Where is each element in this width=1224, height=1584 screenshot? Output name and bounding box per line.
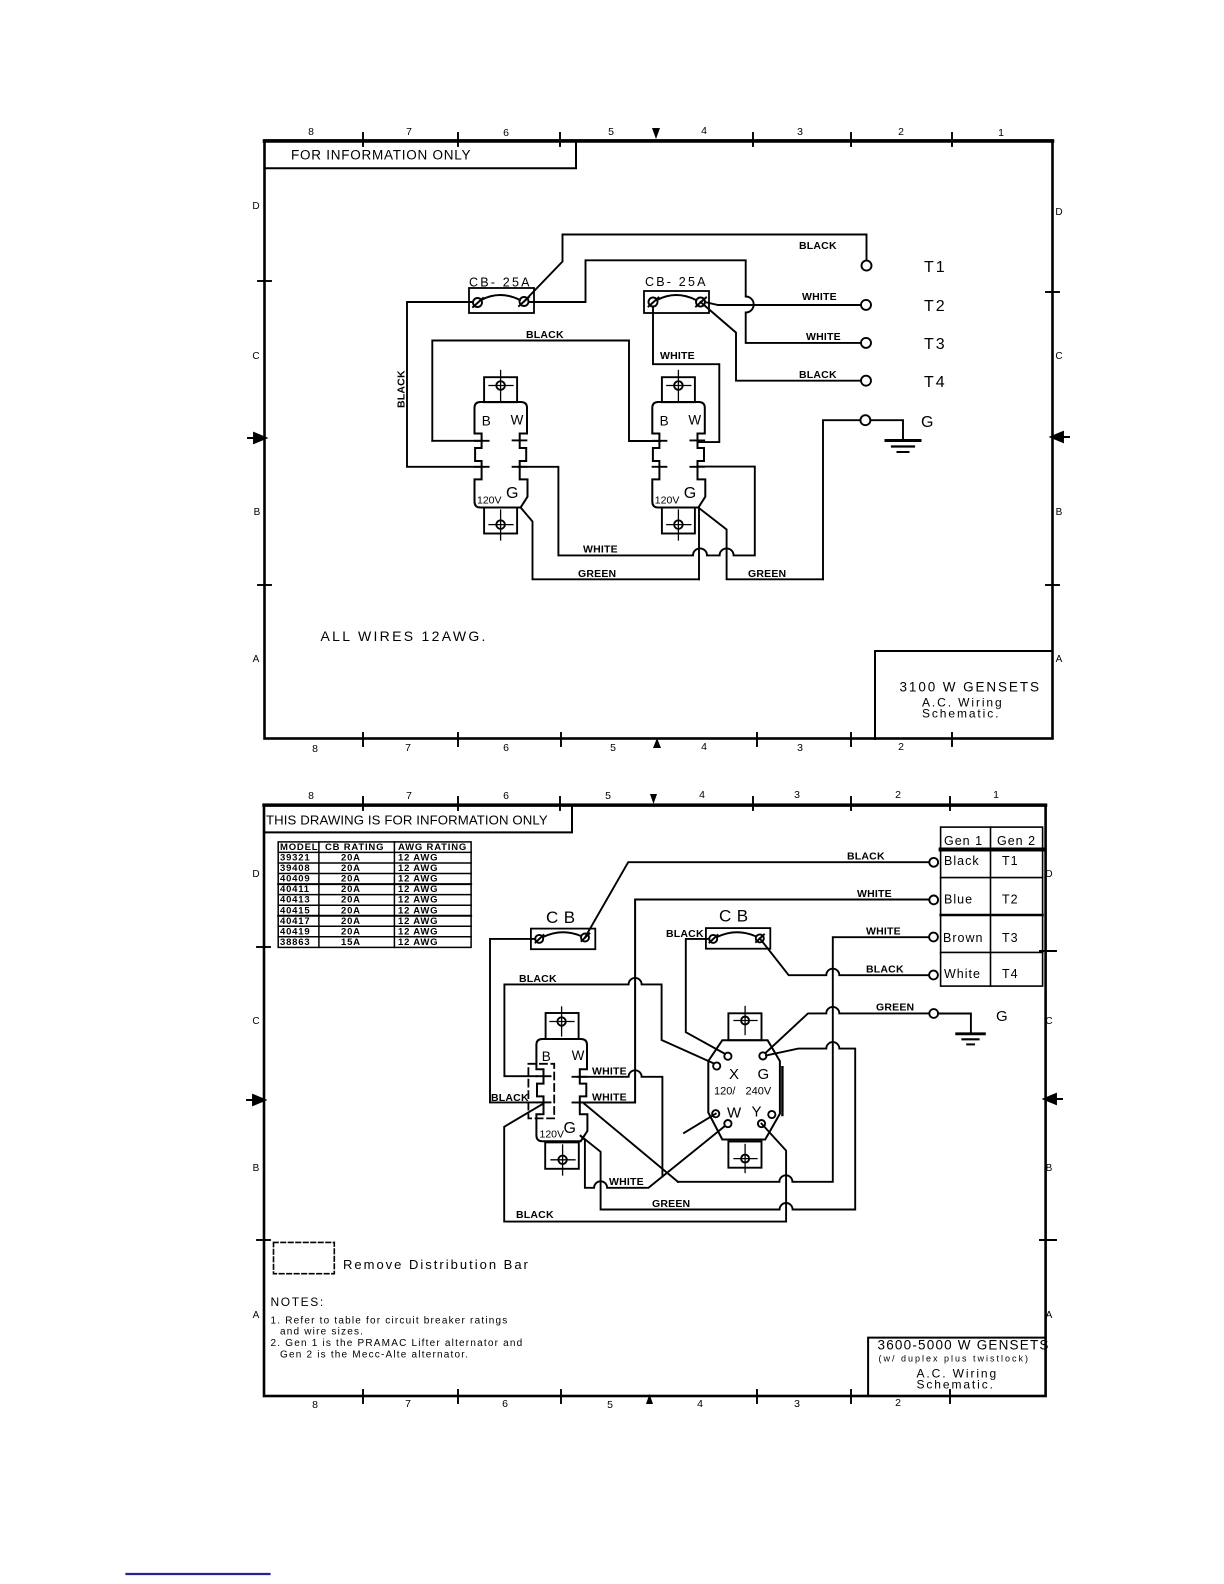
svg-text:5: 5 <box>607 1399 613 1411</box>
wire WHITE to T2 <box>705 302 861 305</box>
wire BLACK between receptacles <box>432 341 660 442</box>
svg-text:B: B <box>1046 1163 1053 1174</box>
svg-text:T1: T1 <box>924 259 947 276</box>
ground symbol <box>886 441 920 453</box>
svg-text:B: B <box>542 1049 551 1064</box>
svg-text:GREEN: GREEN <box>578 568 616 580</box>
svg-text:12 AWG: 12 AWG <box>398 926 438 937</box>
svg-text:WHITE: WHITE <box>609 1176 644 1188</box>
svg-text:4: 4 <box>697 1398 703 1410</box>
wire BLACK to T1 <box>524 235 867 302</box>
THIS DRAWING IS FOR INFORMATION ONLY box <box>264 805 572 832</box>
terminal T3 <box>861 338 871 348</box>
svg-text:W: W <box>511 413 524 428</box>
svg-text:X: X <box>729 1066 739 1083</box>
svg-text:6: 6 <box>502 1398 508 1410</box>
svg-text:W: W <box>727 1105 742 1122</box>
svg-text:7: 7 <box>406 790 412 802</box>
svg-text:ALL WIRES 12AWG.: ALL WIRES 12AWG. <box>321 628 488 644</box>
svg-text:BLACK: BLACK <box>491 1092 529 1104</box>
wire G chamfer to W pins <box>581 1114 725 1188</box>
svg-text:AWG RATING: AWG RATING <box>398 842 467 853</box>
zone labels frame 1 <box>248 201 1069 665</box>
ground symbol (bottom) <box>957 1034 985 1045</box>
svg-text:BLACK: BLACK <box>519 973 557 985</box>
wire WHITE bottom between receptacles <box>519 467 755 556</box>
svg-text:GREEN: GREEN <box>876 1002 914 1014</box>
svg-text:Remove Distribution Bar: Remove Distribution Bar <box>343 1257 530 1272</box>
svg-text:WHITE: WHITE <box>583 544 618 556</box>
svg-text:3600-5000 W GENSETS: 3600-5000 W GENSETS <box>878 1338 1050 1353</box>
wire GREEN bottom loop <box>581 1042 856 1209</box>
wire CB1 left down left side <box>407 302 482 467</box>
svg-text:20A: 20A <box>341 884 361 895</box>
wire BLACK to T1 (bottom) <box>585 862 929 937</box>
svg-text:T3: T3 <box>1002 931 1019 945</box>
wire Y pin to bottom BLACK <box>504 1104 786 1222</box>
notes <box>271 1295 524 1361</box>
svg-text:20A: 20A <box>341 895 361 906</box>
svg-text:8: 8 <box>308 790 314 802</box>
svg-text:A: A <box>1056 654 1063 665</box>
svg-text:WHITE: WHITE <box>866 926 901 938</box>
svg-text:BLACK: BLACK <box>847 851 885 863</box>
svg-text:Schematic.: Schematic. <box>917 1378 995 1392</box>
svg-text:6: 6 <box>503 127 509 139</box>
svg-text:40415: 40415 <box>280 905 310 916</box>
terminal T1 <box>862 261 872 271</box>
svg-text:6: 6 <box>503 790 509 802</box>
svg-text:WHITE: WHITE <box>806 331 841 343</box>
svg-text:CB- 25A: CB- 25A <box>469 276 532 290</box>
svg-text:A: A <box>253 654 260 665</box>
svg-text:3: 3 <box>797 742 803 754</box>
svg-text:B: B <box>253 1163 260 1174</box>
duplex receptacle J2 (right, 120V) <box>652 371 705 541</box>
svg-text:T4: T4 <box>924 374 947 391</box>
svg-text:3: 3 <box>797 126 803 138</box>
svg-text:20A: 20A <box>341 905 361 916</box>
svg-text:40419: 40419 <box>280 926 310 937</box>
circuit breaker CB (right, bottom drawing) <box>666 907 770 949</box>
svg-text:D: D <box>1055 207 1062 218</box>
terminal T2 <box>861 300 871 310</box>
svg-text:G: G <box>564 1120 576 1137</box>
svg-text:T4: T4 <box>1002 967 1019 981</box>
wire BLACK to T4 (bottom) <box>760 938 929 975</box>
svg-text:8: 8 <box>312 1399 318 1411</box>
svg-text:Blue: Blue <box>944 893 973 907</box>
terminal GREEN (bottom) <box>929 1009 938 1018</box>
wire GREEN right <box>699 508 823 579</box>
ruler numbers bottom of frame 1 <box>312 733 952 755</box>
svg-text:BLACK: BLACK <box>526 329 564 341</box>
svg-text:Schematic.: Schematic. <box>922 707 1000 721</box>
svg-text:40417: 40417 <box>280 916 310 927</box>
svg-text:8: 8 <box>308 126 314 138</box>
svg-text:CB- 25A: CB- 25A <box>645 275 708 289</box>
svg-text:8: 8 <box>312 743 318 755</box>
svg-text:7: 7 <box>405 742 411 754</box>
wire B upper to BLACK to X pin <box>504 978 714 1076</box>
wire GREEN to G terminal (bottom) <box>766 1007 929 1053</box>
svg-text:WHITE: WHITE <box>857 888 892 900</box>
svg-text:T2: T2 <box>1002 893 1019 907</box>
svg-text:2: 2 <box>895 1397 901 1409</box>
svg-text:1: 1 <box>998 127 1004 139</box>
wire right receptacle G down <box>698 508 700 579</box>
svg-text:B: B <box>1056 507 1063 518</box>
svg-text:40413: 40413 <box>280 895 310 906</box>
svg-text:W: W <box>688 413 701 428</box>
svg-text:D: D <box>252 869 259 880</box>
svg-text:BLACK: BLACK <box>799 240 837 252</box>
svg-text:FOR INFORMATION ONLY: FOR INFORMATION ONLY <box>291 148 471 163</box>
Gen1/Gen2 table <box>941 827 1043 986</box>
svg-text:Black: Black <box>944 854 980 868</box>
svg-text:4: 4 <box>701 125 707 137</box>
zone labels frame 2 <box>247 869 1062 1321</box>
svg-text:G: G <box>758 1066 770 1083</box>
duplex receptacle (bottom drawing, 120V) <box>536 1007 587 1175</box>
svg-text:40409: 40409 <box>280 874 310 885</box>
svg-text:20A: 20A <box>341 863 361 874</box>
svg-text:12 AWG: 12 AWG <box>398 863 438 874</box>
svg-text:C: C <box>1045 1016 1052 1027</box>
svg-text:D: D <box>252 201 259 212</box>
wire W slot diagonal to T3 run <box>584 1104 678 1182</box>
svg-text:G: G <box>996 1008 1010 1025</box>
svg-text:120V: 120V <box>477 495 502 507</box>
sheet frame 2 <box>264 805 1046 1396</box>
svg-text:20A: 20A <box>341 874 361 885</box>
svg-text:15A: 15A <box>341 937 361 948</box>
svg-text:WHITE: WHITE <box>592 1066 627 1078</box>
svg-text:Gen 1: Gen 1 <box>944 834 983 848</box>
svg-text:2. Gen 1 is the PRAMAC Lifter: 2. Gen 1 is the PRAMAC Lifter alternator… <box>271 1338 524 1349</box>
svg-text:120/: 120/ <box>714 1086 736 1098</box>
svg-text:120V: 120V <box>655 495 680 507</box>
wire CB1 right to T3 <box>529 260 862 343</box>
duplex receptacle J1 (left, 120V) <box>475 371 528 541</box>
svg-text:T3: T3 <box>924 336 947 353</box>
svg-text:D: D <box>1045 869 1052 880</box>
wire BLACK to T4 <box>701 302 862 381</box>
svg-text:GREEN: GREEN <box>748 568 786 580</box>
svg-text:12 AWG: 12 AWG <box>398 853 438 864</box>
svg-text:CB: CB <box>719 907 754 926</box>
svg-text:5: 5 <box>608 126 614 138</box>
svg-text:Brown: Brown <box>943 931 983 945</box>
svg-text:3: 3 <box>794 789 800 801</box>
wire left receptacle B upper <box>432 440 482 442</box>
svg-text:WHITE: WHITE <box>660 350 695 362</box>
title block drawing 2 <box>868 1338 1050 1397</box>
svg-text:NOTES:: NOTES: <box>271 1295 325 1309</box>
svg-text:38863: 38863 <box>280 937 310 948</box>
twistlock receptacle (120/240V) <box>708 1007 782 1173</box>
circuit breaker CB2 (CB- 25A) <box>644 275 709 313</box>
svg-text:12 AWG: 12 AWG <box>398 937 438 948</box>
wire WHITE to T3 (bottom) <box>678 937 929 1182</box>
wire CB2-left to X pin <box>686 939 725 1054</box>
svg-text:20A: 20A <box>341 916 361 927</box>
svg-text:39408: 39408 <box>280 863 310 874</box>
svg-text:GREEN: GREEN <box>652 1198 690 1210</box>
svg-text:12 AWG: 12 AWG <box>398 905 438 916</box>
dashed distribution bar box <box>528 1064 554 1119</box>
svg-text:20A: 20A <box>341 853 361 864</box>
circuit breaker CB1 (CB- 25A) <box>469 276 534 314</box>
svg-text:7: 7 <box>405 1398 411 1410</box>
svg-text:MODEL: MODEL <box>280 842 318 853</box>
svg-text:C: C <box>252 351 259 362</box>
svg-text:5: 5 <box>610 742 616 754</box>
svg-text:B: B <box>660 414 669 429</box>
svg-text:T2: T2 <box>924 298 947 315</box>
svg-text:2: 2 <box>895 789 901 801</box>
svg-text:G: G <box>684 485 696 502</box>
svg-text:BLACK: BLACK <box>866 964 904 976</box>
svg-text:C: C <box>1055 351 1062 362</box>
svg-text:240V: 240V <box>746 1086 772 1098</box>
svg-text:12 AWG: 12 AWG <box>398 874 438 885</box>
title block drawing 1 <box>875 651 1053 739</box>
ruler numbers top of frame 1 <box>308 125 1004 146</box>
svg-text:12 AWG: 12 AWG <box>398 884 438 895</box>
svg-text:2: 2 <box>898 126 904 138</box>
terminal G <box>860 415 870 425</box>
page footer blue rule <box>127 1573 270 1575</box>
wire CB2 left to right receptacle W upper <box>653 307 719 443</box>
wire CB left to B lower slot <box>490 939 537 1103</box>
svg-text:W: W <box>572 1048 585 1063</box>
svg-text:7: 7 <box>406 126 412 138</box>
svg-text:T1: T1 <box>1002 854 1019 868</box>
FOR INFORMATION ONLY title box <box>265 141 577 168</box>
svg-text:A: A <box>1046 1310 1053 1321</box>
svg-text:C: C <box>252 1016 259 1027</box>
svg-text:Y: Y <box>752 1104 762 1121</box>
svg-text:B: B <box>254 507 261 518</box>
terminal T4 <box>861 376 871 386</box>
terminal T4 (bottom) <box>929 971 938 980</box>
svg-text:5: 5 <box>605 790 611 802</box>
svg-text:B: B <box>482 414 491 429</box>
ruler numbers top of frame 2 <box>308 789 999 810</box>
svg-text:CB: CB <box>546 908 581 927</box>
svg-text:2: 2 <box>898 741 904 753</box>
svg-text:12 AWG: 12 AWG <box>398 895 438 906</box>
svg-text:WHITE: WHITE <box>592 1092 627 1104</box>
svg-text:THIS DRAWING IS FOR INFORMATIO: THIS DRAWING IS FOR INFORMATION ONLY <box>266 813 548 828</box>
svg-text:3: 3 <box>794 1398 800 1410</box>
svg-text:G: G <box>506 485 518 502</box>
terminal T1 (bottom) <box>929 858 938 867</box>
svg-text:WHITE: WHITE <box>802 291 837 303</box>
svg-text:BLACK: BLACK <box>396 370 408 408</box>
sheet frame 1 <box>265 141 1053 739</box>
Remove Distribution Bar legend <box>274 1242 530 1273</box>
wire GREEN left <box>521 508 699 580</box>
svg-text:A: A <box>253 1310 260 1321</box>
svg-text:40411: 40411 <box>280 884 310 895</box>
wire to ground (bottom) <box>938 1014 971 1033</box>
circuit breaker CB (left, bottom drawing) <box>531 908 595 949</box>
wire W upper over to W pin riser <box>578 1070 662 1176</box>
wire WHITE to T2 (bottom) <box>578 900 929 1103</box>
terminal T2 (bottom) <box>929 896 938 905</box>
svg-text:BLACK: BLACK <box>516 1209 554 1221</box>
svg-text:1. Refer to table for circuit: 1. Refer to table for circuit breaker ra… <box>271 1316 509 1327</box>
wire G to ground <box>870 420 903 439</box>
svg-text:120V: 120V <box>540 1129 565 1141</box>
svg-text:BLACK: BLACK <box>799 369 837 381</box>
svg-text:39321: 39321 <box>280 853 310 864</box>
terminal T3 (bottom) <box>929 933 938 942</box>
svg-text:Gen 2: Gen 2 <box>997 834 1036 848</box>
svg-text:4: 4 <box>701 741 707 753</box>
wire G terminal to GREEN riser <box>823 420 860 579</box>
breaker rating table <box>278 842 471 948</box>
svg-text:Gen 2 is the Mecc-Alte alterna: Gen 2 is the Mecc-Alte alternator. <box>280 1350 469 1361</box>
svg-text:and wire sizes.: and wire sizes. <box>280 1327 364 1338</box>
svg-text:CB RATING: CB RATING <box>325 842 384 853</box>
svg-text:1: 1 <box>993 789 999 801</box>
svg-text:4: 4 <box>699 789 705 801</box>
ruler numbers bottom of frame 2 <box>312 1390 950 1411</box>
svg-text:12 AWG: 12 AWG <box>398 916 438 927</box>
svg-text:(w/ duplex plus twistlock): (w/ duplex plus twistlock) <box>879 1354 1031 1364</box>
svg-text:3100 W GENSETS: 3100 W GENSETS <box>900 680 1041 695</box>
svg-text:6: 6 <box>503 742 509 754</box>
svg-text:20A: 20A <box>341 926 361 937</box>
svg-text:G: G <box>921 414 935 431</box>
svg-text:White: White <box>944 967 981 981</box>
